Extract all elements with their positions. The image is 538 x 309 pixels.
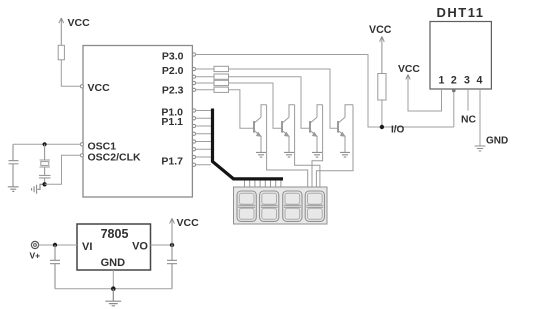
svg-text:4: 4 — [477, 75, 483, 87]
ground Q4 — [340, 152, 350, 157]
pin circles P1.0-P1.7 — [192, 109, 195, 166]
node pin2 junction — [452, 89, 456, 93]
display DS1 digit 4 — [305, 191, 324, 221]
wire R3 to Q3 base — [229, 77, 310, 129]
ground Q2 — [284, 152, 294, 157]
transistor Q1 — [254, 105, 267, 152]
ground DHT11 pin4 — [475, 146, 486, 151]
svg-text:2: 2 — [451, 75, 457, 87]
transistor Q3 — [310, 105, 323, 152]
svg-text:P1.1: P1.1 — [161, 116, 183, 128]
svg-text:VI: VI — [82, 241, 92, 253]
svg-text:3: 3 — [464, 75, 470, 87]
power VCC arrow output — [170, 218, 175, 245]
node junction OSC2 — [42, 182, 46, 186]
wire 7805 GND pin down — [112, 270, 114, 289]
svg-text:VCC: VCC — [369, 24, 392, 36]
power VCC arrow pull-up — [380, 37, 385, 74]
wire Q4 collector to display digit3 — [316, 105, 353, 187]
wire ground rail — [55, 288, 172, 290]
pin VCC of U1 — [80, 85, 83, 88]
node junction VI — [53, 243, 57, 247]
wire OSC1 — [13, 143, 81, 145]
svg-text:P1.7: P1.7 — [161, 155, 183, 167]
wire VO to VCC — [151, 244, 173, 246]
display DS1 body — [234, 187, 328, 224]
microcontroller U1 box — [83, 46, 192, 198]
crystal X1 — [40, 144, 51, 175]
capacitor C2 — [39, 175, 51, 184]
wire R1 to VCC pin — [61, 60, 80, 87]
sensor U2 DHT11 box — [430, 22, 491, 90]
display DS1 digit 1 — [237, 191, 256, 221]
svg-text:P2.3: P2.3 — [162, 85, 184, 97]
regulator U3 7805 box — [77, 224, 151, 270]
resistor R6 pull-up — [378, 74, 386, 101]
svg-text:7805: 7805 — [101, 227, 129, 241]
wire Q1 collector to display digit1 — [267, 105, 308, 187]
node I/O junction — [380, 125, 384, 129]
node junction GND rail — [111, 286, 116, 291]
svg-text:NC: NC — [461, 114, 477, 125]
svg-text:VCC: VCC — [398, 64, 420, 75]
wire R6 to I/O node — [381, 100, 383, 127]
svg-text:OSC2/CLK: OSC2/CLK — [88, 151, 142, 163]
svg-text:1: 1 — [439, 75, 445, 87]
resistor R4 (P2.2) — [196, 82, 214, 84]
power VCC arrow DHT11 — [406, 75, 410, 80]
display DS1 digit 2 — [260, 191, 279, 221]
pin circles right side P3.0 P2.x — [192, 53, 195, 92]
display DS1 digit 3 — [283, 191, 302, 221]
transistor Q2 — [282, 105, 295, 152]
wire bus thick P1 to display — [213, 109, 284, 179]
capacitor C4 — [50, 245, 60, 289]
wire R2 to Q4 base — [229, 69, 338, 128]
wires P1 pins to bus bar — [196, 111, 211, 165]
wire pin4 to ground — [479, 89, 481, 146]
resistor R5 (P2.3) — [196, 89, 214, 91]
svg-text:GND: GND — [101, 257, 126, 269]
ground Q1 — [256, 152, 266, 157]
resistor R1 — [58, 45, 64, 60]
svg-text:I/O: I/O — [391, 125, 405, 136]
svg-text:V+: V+ — [30, 250, 41, 260]
svg-text:VCC: VCC — [68, 17, 91, 29]
ground earth left — [8, 187, 19, 192]
wire R4 to Q2 base — [229, 83, 282, 128]
wire OSC2 — [45, 155, 81, 184]
capacitor C5 — [167, 245, 177, 289]
resistor R3 (P2.1) — [196, 76, 214, 78]
svg-text:GND: GND — [486, 136, 508, 147]
svg-text:P2.0: P2.0 — [162, 65, 184, 77]
svg-text:VCC: VCC — [88, 82, 111, 94]
wire pin2 data — [453, 89, 455, 127]
node junction VO — [170, 243, 174, 247]
wire P3.0 to DHT11 data node — [196, 55, 454, 128]
ground chassis left rotated — [32, 184, 43, 194]
connector V+ input — [31, 241, 38, 248]
svg-text:DHT11: DHT11 — [437, 5, 485, 20]
wire Q3 collector to display digit2 — [312, 105, 323, 187]
wire V+ to VI — [39, 244, 77, 246]
svg-text:P3.0: P3.0 — [162, 51, 184, 63]
wire Q2 collector to display digit4 — [295, 105, 320, 187]
capacitor C1 — [9, 144, 19, 186]
svg-text:VO: VO — [132, 241, 148, 253]
pin OSC2 circle — [80, 154, 83, 157]
wire segment ticks bus to display — [245, 181, 281, 188]
ground Q3 — [312, 152, 322, 157]
wire pin3 NC stub — [467, 89, 469, 111]
pin OSC1 circle — [80, 143, 83, 146]
ground earth 7805 — [105, 289, 121, 306]
power VCC arrow top-left — [59, 18, 64, 45]
svg-text:VCC: VCC — [177, 217, 200, 229]
resistor R2 (P2.0) — [196, 68, 214, 70]
wire pin1 to VCC — [408, 78, 442, 112]
transistor Q4 — [338, 105, 353, 152]
wire R5 to Q1 base — [229, 90, 254, 129]
node junction OSC1 — [43, 142, 47, 146]
